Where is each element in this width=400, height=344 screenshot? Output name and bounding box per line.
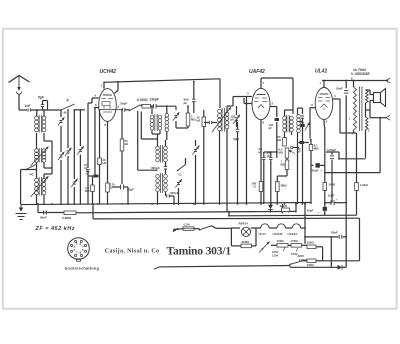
pin 7 UAF42	[261, 78, 265, 88]
pin 8 UCH42	[105, 121, 108, 183]
bus junction dots	[37, 203, 306, 213]
IFT2 core	[287, 115, 289, 133]
wire S2 drop b	[141, 112, 157, 140]
capacitor 20nF	[298, 141, 309, 154]
capacitor 25nF	[304, 230, 347, 239]
transformer T1 upper secondary	[42, 116, 46, 132]
svg-text:MΩ: MΩ	[314, 147, 319, 151]
osc tuning arrow	[212, 107, 231, 132]
IFT2 winding b	[290, 116, 294, 132]
fuse 0.5A	[173, 222, 194, 231]
svg-text:1nF: 1nF	[25, 104, 31, 108]
socket pins	[70, 240, 86, 261]
wire rect left	[330, 237, 332, 267]
pin left2 UAF42	[244, 98, 252, 104]
label UL41	[315, 68, 327, 74]
mains switch	[289, 260, 308, 268]
osc transformer core	[222, 108, 224, 132]
node A	[36, 109, 38, 111]
capacitor 1nF	[25, 104, 38, 112]
pin 2 UAF42	[270, 102, 277, 107]
wire to node A	[37, 109, 61, 111]
trimmer M1	[58, 111, 67, 126]
transformer T1 upper primary	[35, 116, 39, 132]
pin6 column	[94, 108, 95, 177]
output transformer core	[360, 87, 362, 132]
resistor 30k	[98, 109, 107, 204]
svg-text:10nF: 10nF	[336, 87, 343, 91]
tube UAF42	[252, 88, 270, 119]
capacitor 200pF	[264, 151, 278, 205]
trimmer with 10nF	[84, 107, 90, 204]
IFT1b winding a	[156, 162, 160, 192]
wire T2 bottom	[26, 162, 52, 170]
svg-text:nF: nF	[86, 172, 90, 176]
heater UCH42	[273, 224, 286, 236]
svg-text:1,5kΩ: 1,5kΩ	[360, 183, 368, 187]
svg-text:430Ω: 430Ω	[307, 263, 315, 267]
wire vertical x80	[77, 109, 84, 204]
label RV614	[239, 222, 248, 226]
svg-text:30µF: 30µF	[312, 169, 319, 173]
svg-text:+C: +C	[30, 173, 35, 177]
svg-text:170Ω: 170Ω	[291, 239, 299, 243]
diode detector	[268, 204, 273, 213]
transformer T2 primary	[35, 149, 39, 163]
wire bus C2 right	[359, 218, 361, 260]
wire UL41 cathode	[323, 119, 326, 182]
trimmer 9pF	[192, 140, 200, 204]
capacitor 0.1uF	[259, 147, 266, 204]
svg-text:5pF: 5pF	[38, 96, 44, 100]
capacitor 325pF	[167, 191, 179, 204]
svg-text:MΩ: MΩ	[279, 151, 284, 155]
tuning arrow T2	[31, 147, 49, 167]
svg-text:50nF: 50nF	[40, 216, 47, 220]
resistor 1M	[183, 105, 196, 128]
switch S2	[129, 105, 142, 111]
wire x122 down	[121, 109, 123, 139]
pin 4 UCH42	[88, 94, 99, 108]
wire trimmer M1 down	[58, 126, 65, 204]
svg-text:10µF: 10µF	[307, 209, 314, 213]
ground symbol	[16, 204, 27, 220]
svg-text:UL41: UL41	[259, 232, 267, 236]
trimmer 150pF	[231, 106, 241, 127]
capacitor 12uF	[324, 194, 346, 206]
wire mains left tick	[173, 228, 178, 232]
wire lamp to heaters	[251, 227, 261, 229]
wire var	[256, 246, 263, 249]
tube UAF42 internals	[254, 95, 268, 109]
resistor 140R	[323, 183, 336, 203]
IFT1 winding c	[165, 114, 169, 132]
svg-text:130pF: 130pF	[150, 98, 159, 102]
wire vertical x74	[71, 109, 78, 204]
potentiometer 0.5M	[279, 146, 296, 160]
resistor 10k	[197, 110, 206, 204]
IFT1 middle winding b	[164, 146, 168, 162]
socket diagram	[68, 238, 90, 260]
capacitor 50pF	[120, 102, 129, 112]
label Sockelschaltung	[65, 265, 100, 270]
IFT2 winding c	[297, 115, 301, 133]
wire bus2 left	[37, 203, 43, 212]
wire bus2 end	[295, 203, 297, 212]
svg-text:MΩ: MΩ	[281, 163, 286, 167]
resistor 50k b	[278, 135, 287, 146]
IFT2 winding a	[283, 116, 287, 132]
label Casija	[105, 248, 160, 254]
top bus UL41	[322, 80, 388, 82]
resistor 0.1M	[309, 138, 319, 204]
antenna	[9, 76, 30, 95]
svg-text:pF: pF	[267, 154, 271, 158]
trimmer mid	[175, 178, 182, 204]
wire bus C1	[228, 212, 356, 217]
resistor 1.5k	[340, 133, 368, 215]
speaker	[366, 89, 387, 118]
wire T1	[37, 109, 45, 116]
resistor 170R	[106, 183, 115, 205]
tube UL41	[315, 88, 333, 120]
capacitor 130pF det	[269, 107, 280, 159]
resistor 430R	[303, 259, 360, 267]
wire K to grid	[61, 110, 85, 117]
pin 6 UCH42	[94, 103, 99, 108]
resistor 120R	[307, 241, 323, 261]
label Tamino	[167, 244, 232, 257]
svg-text:TAF: TAF	[233, 138, 240, 142]
svg-text:V–05535/3E: V–05535/3E	[351, 72, 370, 76]
pin 3 UCH42	[99, 105, 122, 110]
pin 6 UL41	[310, 103, 315, 141]
IFT1 wires	[152, 105, 168, 140]
transformer T2 secondary	[42, 149, 46, 163]
output transformer hum coil	[366, 110, 371, 158]
resistor 50k a	[120, 139, 129, 184]
IFT1 middle core	[160, 145, 162, 163]
transformer T3 primary	[35, 178, 39, 195]
label 240V	[299, 258, 306, 262]
capacitor 130pF	[150, 98, 177, 109]
variable resistor arrow	[259, 242, 270, 253]
svg-text:ZF = 452 kHz: ZF = 452 kHz	[35, 226, 75, 232]
svg-text:nF: nF	[298, 150, 302, 154]
tube UCH42	[99, 89, 117, 122]
wire antenna down	[19, 94, 27, 110]
svg-text:Tamino 303/1: Tamino 303/1	[167, 244, 232, 257]
transformer T2 core	[39, 148, 41, 163]
transformer T3 core	[39, 177, 41, 196]
svg-text:150Ω: 150Ω	[277, 239, 285, 243]
osc wires	[220, 106, 234, 212]
switch Ca	[177, 158, 186, 177]
IFT2 wires	[285, 108, 303, 204]
capacitor 30uF	[311, 163, 325, 172]
wire T3	[37, 168, 53, 204]
pin 2 UCH42	[115, 82, 119, 94]
svg-text:UAF42: UAF42	[288, 232, 298, 236]
label UAF42	[249, 69, 265, 75]
label 125V 110V	[272, 247, 285, 257]
pin 4 UL41	[333, 94, 340, 133]
wire rect right	[345, 237, 347, 267]
ground bus	[21, 203, 312, 205]
wire h3	[301, 202, 306, 244]
svg-text:UCH42: UCH42	[100, 69, 117, 75]
trimmer IFT1	[173, 106, 183, 128]
IFT1b winding b	[164, 174, 168, 191]
pin 2 UL41	[324, 119, 328, 127]
capacitor 50nF blob	[86, 169, 100, 178]
capacitor 10nF	[336, 80, 348, 237]
UL41 grid cap	[291, 114, 310, 149]
svg-text:12µF: 12µF	[328, 194, 335, 198]
IFT1 winding a	[150, 105, 154, 130]
IFT1 core	[155, 114, 157, 131]
tube UCH42 internals	[102, 95, 114, 112]
IFT1 winding b	[158, 115, 162, 130]
resistor 0.3M	[62, 211, 296, 220]
resistor 200R	[252, 176, 263, 204]
wire T1 mid	[37, 133, 53, 168]
svg-text:0,5A: 0,5A	[184, 222, 191, 226]
wire S2 drop a	[138, 111, 158, 170]
svg-text:№ 7064: № 7064	[353, 68, 366, 72]
resistor 3M	[276, 176, 288, 204]
capacitor 10uF	[307, 203, 328, 216]
svg-text:UCH42: UCH42	[273, 232, 283, 236]
capacitor TAF	[233, 122, 240, 204]
heater UAF42	[288, 224, 301, 236]
label 220V	[298, 254, 305, 258]
resistor 900R	[231, 228, 256, 248]
svg-text:12kΩ: 12kΩ	[280, 204, 288, 208]
capacitor 50uF cathode	[108, 185, 135, 205]
output transformer primary	[349, 77, 357, 136]
label transformer type	[351, 68, 370, 76]
resistor 170R b	[291, 239, 308, 247]
svg-text:900Ω: 900Ω	[242, 240, 250, 244]
trimmer IFT2 a	[301, 108, 304, 204]
output transformer secondary	[366, 90, 371, 110]
label UCH42	[100, 69, 117, 75]
svg-text:120Ω: 120Ω	[307, 241, 315, 245]
resistor 190R	[137, 98, 153, 108]
switch K	[60, 99, 74, 111]
wire vertical x68	[65, 109, 72, 204]
pin 3 UAF42	[247, 92, 253, 205]
feedback line	[324, 118, 380, 174]
diode rectifier	[290, 265, 346, 270]
wire left ground drop	[21, 170, 26, 205]
resistor 1M b	[277, 160, 289, 177]
pin 1 UCH42	[101, 82, 105, 89]
wire h2	[285, 227, 292, 229]
svg-text:8 190Ω: 8 190Ω	[137, 98, 148, 102]
wire osc top	[233, 97, 247, 107]
tube UL41 internals	[318, 94, 330, 110]
svg-text:50pF: 50pF	[120, 102, 127, 106]
resistor 150R	[271, 239, 305, 247]
svg-text:300pF: 300pF	[151, 166, 160, 170]
resistor 12k	[280, 204, 290, 213]
transformer T1 upper core	[39, 115, 41, 133]
svg-text:RV614: RV614	[239, 222, 248, 226]
top bus UAF42	[261, 78, 293, 114]
svg-text:Sockelschaltung: Sockelschaltung	[65, 265, 100, 270]
svg-text:pF: pF	[269, 126, 273, 130]
svg-text:M₁: M₁	[64, 111, 68, 115]
capacitor 5pF	[38, 96, 48, 111]
capacitor 300pF	[151, 140, 167, 174]
tuning arrow T3	[31, 176, 49, 197]
svg-text:µF: µF	[184, 101, 188, 105]
capacitor 990pF	[184, 81, 196, 113]
wire h1	[269, 227, 277, 229]
dial lamp	[231, 227, 256, 246]
svg-text:3MΩ: 3MΩ	[281, 184, 288, 188]
terminal bottom right	[379, 115, 390, 120]
osc transformer winding a	[218, 109, 222, 130]
IFT1b core	[160, 173, 162, 193]
pin 7 UL41	[320, 81, 325, 88]
capacitor 100p osc	[204, 121, 217, 124]
svg-text:UL41: UL41	[315, 68, 327, 74]
pin 6 UAF42	[261, 120, 265, 205]
mains cord	[154, 266, 290, 270]
svg-text:25nF: 25nF	[331, 230, 338, 234]
heater UL41	[259, 224, 270, 236]
wire bus C2	[92, 203, 359, 219]
transformer T3 secondary	[42, 178, 46, 195]
IFT1b wires	[158, 192, 166, 204]
svg-text:UAF42: UAF42	[249, 69, 265, 75]
label 150V	[291, 248, 298, 256]
capacitor 50nF	[40, 210, 64, 219]
svg-text:0,3MΩ: 0,3MΩ	[62, 216, 72, 220]
svg-text:325pF: 325pF	[170, 191, 179, 195]
wire top bus UCH42	[104, 79, 220, 108]
svg-text:pF: pF	[231, 118, 235, 122]
svg-text:Casija, Nisal u. Co: Casija, Nisal u. Co	[105, 248, 160, 254]
svg-text:µF: µF	[259, 150, 263, 154]
osc transformer winding b	[225, 112, 229, 129]
resistor 0.3M b	[85, 176, 94, 204]
capacitor 0.25uF	[326, 148, 366, 203]
svg-text:110V: 110V	[272, 253, 279, 257]
label ZF	[35, 226, 75, 232]
switch +C	[25, 165, 36, 177]
terminal top right	[386, 78, 390, 83]
IFT1 middle winding a	[156, 134, 160, 162]
switch mains a	[194, 211, 231, 231]
svg-text:50µF: 50µF	[127, 188, 134, 192]
